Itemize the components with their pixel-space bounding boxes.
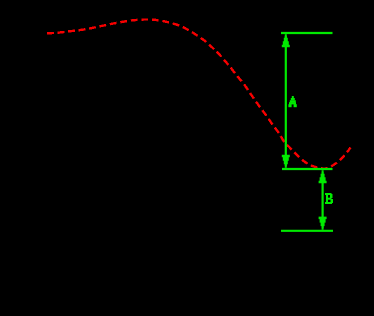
- arrow B lower head: [319, 217, 327, 230]
- label A: [288, 96, 296, 107]
- arrow B shaft: [322, 172, 324, 228]
- label B: [325, 193, 333, 204]
- red dashed curve: [47, 19, 351, 168]
- arrow A upper head: [282, 34, 290, 47]
- arrow A lower head: [282, 155, 290, 168]
- arrow A shaft: [285, 36, 287, 166]
- bottom reference line: [281, 230, 333, 232]
- middle reference line: [282, 168, 333, 170]
- top reference line: [281, 32, 333, 34]
- arrow B upper head: [319, 170, 327, 183]
